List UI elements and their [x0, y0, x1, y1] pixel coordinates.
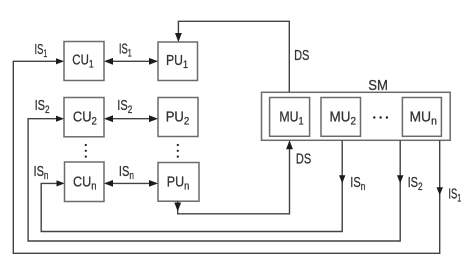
svg-text:PU2: PU2	[166, 110, 190, 128]
wire DS bottom: PUn bottom to SM bottom	[178, 142, 290, 214]
block CU2	[64, 98, 104, 137]
label IS2 left	[35, 98, 50, 116]
label MU1	[279, 110, 303, 128]
svg-text:CUn: CUn	[73, 174, 97, 192]
svg-text:MU2: MU2	[330, 110, 357, 128]
block PUn	[158, 163, 199, 202]
svg-text:ISn: ISn	[119, 164, 134, 182]
label ISn right	[350, 175, 365, 193]
wire IS1 loop: SM bottom to CU1 input	[13, 61, 439, 253]
arrowhead IS2 into CU2	[56, 116, 64, 122]
label DS top	[294, 48, 309, 64]
block MU2	[321, 98, 361, 137]
arrowhead row2 at PU2 left	[149, 115, 158, 122]
svg-text:MUn: MUn	[409, 110, 437, 128]
svg-text:PU1: PU1	[166, 53, 188, 71]
arrowhead row3 at CUn right	[104, 180, 113, 187]
arrowhead row3 at PUn left	[149, 180, 158, 187]
arrowhead IS1 down mid-wire	[437, 187, 443, 195]
svg-text:IS1: IS1	[35, 42, 48, 60]
svg-text:ISn: ISn	[350, 175, 365, 193]
arrowhead row1 at CU1 right	[104, 58, 113, 65]
wire ISn CUn-PUn double arrow	[106, 182, 157, 184]
label ISn left	[34, 164, 49, 182]
svg-text:SM: SM	[368, 78, 388, 94]
arrowhead DS down from PUn bottom	[174, 203, 181, 212]
label PU2	[166, 110, 190, 128]
label MU2	[330, 110, 357, 128]
svg-text:DS: DS	[296, 151, 311, 167]
svg-text:PUn: PUn	[167, 174, 190, 192]
block MU1	[270, 98, 310, 137]
arrowhead IS1 into CU1	[56, 58, 64, 64]
block CUn	[65, 162, 105, 202]
arrowhead IS2 down mid-wire	[397, 175, 403, 183]
svg-text:MU1: MU1	[279, 110, 303, 128]
arrowhead ISn down mid-wire	[339, 175, 345, 183]
block PU2	[158, 98, 198, 137]
block MUn	[402, 98, 441, 137]
arrowhead DS up into SM bottom	[286, 140, 293, 149]
wire DS top: SM top to PU1 top	[178, 21, 289, 92]
label IS2 mid	[117, 98, 132, 116]
svg-text:CU1: CU1	[72, 52, 93, 70]
block SM	[262, 92, 451, 140]
label PUn	[167, 174, 190, 192]
wire ISn loop: SM bottom to CUn input	[41, 140, 342, 231]
wire IS1 CU1-PU1 double arrow	[106, 60, 157, 62]
wire IS2 loop: SM bottom to CU2 input	[28, 119, 400, 241]
arrowhead row2 at CU2 right	[104, 115, 113, 122]
label CU1	[72, 52, 93, 70]
arrowhead DS into PU1 top	[175, 33, 182, 42]
label PU1	[166, 53, 188, 71]
label ISn mid	[119, 164, 134, 182]
arrowhead row1 at PU1 left	[149, 58, 158, 65]
svg-text:IS2: IS2	[408, 175, 423, 193]
svg-text:CU2: CU2	[73, 110, 97, 128]
label IS1 right	[448, 187, 461, 205]
wire IS2 CU2-PU2 double arrow	[106, 118, 157, 120]
label MUn	[409, 110, 437, 128]
arrowhead ISn into CUn	[57, 180, 65, 186]
label SM	[368, 78, 388, 94]
svg-text:IS2: IS2	[35, 98, 50, 116]
label IS1 left	[35, 42, 48, 60]
label CU2	[73, 110, 97, 128]
dots PU column vertical ellipsis	[177, 144, 179, 158]
label DS bottom	[296, 151, 311, 167]
dots MU row horizontal ellipsis	[373, 116, 388, 118]
block CU1	[64, 42, 104, 81]
svg-text:ISn: ISn	[34, 164, 49, 182]
svg-text:IS2: IS2	[117, 98, 132, 116]
svg-text:IS1: IS1	[119, 41, 132, 59]
block PU1	[158, 42, 198, 81]
label CUn	[73, 174, 97, 192]
dots CU column vertical ellipsis	[85, 144, 87, 158]
svg-text:DS: DS	[294, 48, 309, 64]
label IS1 mid	[119, 41, 132, 59]
label IS2 right	[408, 175, 423, 193]
svg-text:IS1: IS1	[448, 187, 461, 205]
